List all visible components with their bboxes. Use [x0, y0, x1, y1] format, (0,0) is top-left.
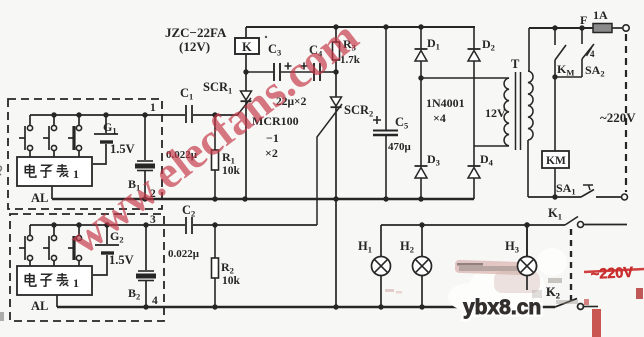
AC low rail to SA1 — [528, 196, 581, 198]
K2 contact circle — [578, 304, 584, 310]
white blob artifact 2 — [537, 248, 567, 276]
junction dot C5-node2 — [383, 196, 388, 201]
contactor coil KM box — [542, 151, 569, 168]
svg-text:K2: K2 — [546, 285, 560, 301]
svg-text:SA2: SA2 — [585, 63, 605, 79]
svg-text:×4: ×4 — [433, 111, 446, 125]
capacitor C5 plates — [373, 130, 398, 132]
capacitor C3 — [273, 63, 275, 81]
svg-text:SCR1: SCR1 — [203, 80, 232, 96]
SCR2 anode wire — [335, 72, 337, 97]
ganged link K1-K2 dashed redrawn — [570, 229, 572, 301]
junction dot B1-node2 — [142, 196, 147, 201]
svg-text:−1: −1 — [266, 131, 279, 145]
svg-text:ybx8.cn: ybx8.cn — [463, 296, 541, 319]
capacitor C4 — [313, 63, 315, 81]
svg-text:KM: KM — [546, 155, 566, 167]
svg-text:(12V): (12V) — [179, 39, 210, 54]
tie wire KM-SA2 bottoms — [555, 76, 582, 78]
sounder B1 — [142, 112, 147, 117]
AC input terminal top — [623, 25, 629, 31]
svg-text:1A: 1A — [593, 8, 608, 22]
rectifier D1 — [420, 27, 422, 49]
capacitor C1 — [185, 105, 187, 123]
junction dot R2-node4 — [212, 304, 217, 309]
white blob artifact 1 — [469, 263, 545, 311]
SCR2 — [331, 97, 342, 106]
svg-text:D3: D3 — [427, 152, 440, 168]
junction dot fuse-SA2 — [579, 25, 584, 30]
battery G2 — [104, 222, 109, 227]
junction dot commutating cap right — [333, 69, 338, 74]
primary top lead — [528, 28, 530, 71]
gray noise speck 1 — [548, 278, 562, 283]
battery G1 — [103, 112, 108, 117]
node 3 wire (clock2 alarm output bus) — [30, 224, 185, 226]
pushbutton S2b — [53, 225, 55, 235]
K2 stub wire — [584, 306, 598, 308]
junction dot H2 top — [419, 222, 424, 227]
svg-text:SCR2: SCR2 — [344, 103, 373, 119]
K1 contact circle — [578, 222, 584, 228]
resistor R2 — [212, 222, 217, 227]
svg-text:C1: C1 — [180, 86, 193, 102]
relay coil K feed wire — [245, 27, 247, 40]
svg-text:1: 1 — [73, 167, 79, 181]
svg-text:KM: KM — [557, 62, 574, 78]
AC node 2 wire to transformer secondary bottom — [474, 145, 509, 147]
red speck small — [584, 299, 589, 305]
commutating capacitor wire — [246, 71, 273, 73]
svg-text:12V: 12V — [485, 106, 506, 120]
junction dot R1-node2 — [212, 196, 217, 201]
svg-text:~220V: ~220V — [600, 110, 636, 125]
svg-text:10k: 10k — [222, 275, 241, 287]
red stamp bar — [592, 309, 601, 337]
resistor R1 — [212, 112, 217, 117]
dashed enclosure clock unit 1 — [8, 99, 162, 209]
clock box 2 (dianzibiao 2) — [17, 266, 92, 295]
svg-text:0.022μ: 0.022μ — [168, 248, 200, 260]
pushbutton S1c — [78, 115, 80, 125]
SA1 terminal circle — [622, 194, 628, 200]
primary bottom lead — [527, 140, 529, 197]
resistor R3 — [335, 27, 337, 42]
svg-text:T: T — [511, 57, 520, 71]
rectifier D4 — [473, 146, 475, 166]
svg-text:10k: 10k — [222, 165, 241, 177]
svg-text:JZC−22FA: JZC−22FA — [165, 25, 227, 40]
svg-text:AL: AL — [31, 191, 48, 205]
lamp H3 redrawn over smudge — [526, 225, 528, 256]
junction dot H3 bottom — [524, 304, 529, 309]
svg-text:R2: R2 — [221, 260, 234, 276]
svg-text:K1: K1 — [548, 206, 562, 222]
AC top rail — [529, 27, 593, 29]
junction dot R3 top — [333, 24, 338, 29]
clock box 1 (dianzibiao 1) — [17, 157, 92, 186]
lamp H1 leads — [380, 225, 382, 256]
pink smudge lower — [494, 271, 540, 293]
SCR1 — [241, 91, 252, 100]
plus mark C5 — [373, 116, 381, 124]
svg-text:~220V: ~220V — [590, 265, 633, 283]
pushbutton S2a — [29, 225, 31, 235]
filter capacitor C5 top lead — [385, 27, 387, 130]
transformer T secondary winding — [504, 78, 509, 146]
KM auxiliary contact — [554, 28, 556, 45]
node 2 rail (clock1/supply negative bus) — [52, 198, 474, 200]
lamp H3 leads — [526, 225, 528, 256]
svg-text:4: 4 — [152, 295, 158, 307]
svg-text:1.5V: 1.5V — [109, 253, 134, 267]
pushbutton S1a — [29, 115, 31, 125]
svg-text:D4: D4 — [480, 152, 494, 168]
svg-text:1: 1 — [150, 102, 156, 114]
svg-text:SA1: SA1 — [556, 181, 576, 197]
pushbutton S1b — [53, 115, 55, 125]
pink smudge band — [455, 260, 527, 276]
svg-text:H2: H2 — [400, 239, 414, 255]
svg-text:1.5V: 1.5V — [110, 142, 135, 156]
dashed enclosure clock unit 2 — [10, 214, 164, 321]
rectifier D2 — [473, 27, 475, 49]
relay K box — [235, 38, 259, 54]
junction dot B2-node4 — [143, 304, 148, 309]
lamp H2 leads — [421, 225, 423, 256]
SCR1 anode wire — [245, 54, 247, 91]
junction dot D1 top — [418, 24, 423, 29]
svg-text:C2: C2 — [182, 203, 195, 219]
svg-text:×2: ×2 — [265, 146, 278, 160]
SA2 switch — [581, 28, 583, 44]
K1 switch feed wire — [381, 224, 565, 226]
white blob artifact 3 — [448, 283, 492, 311]
lamp H1 — [372, 257, 391, 276]
capacitor C2 — [185, 217, 187, 234]
fuse F — [593, 24, 612, 33]
gray noise speck 2 — [556, 300, 578, 304]
red strike line — [584, 269, 644, 272]
K2 switch blade — [555, 299, 577, 308]
svg-text:D1: D1 — [427, 36, 440, 52]
svg-text:F: F — [580, 13, 587, 27]
rectifier D3 — [420, 78, 422, 166]
12V positive top rail — [246, 26, 475, 28]
sounder B2 — [143, 222, 148, 227]
SCR2 gate wire — [317, 104, 342, 225]
speck — [265, 36, 267, 38]
svg-text:H1: H1 — [358, 239, 372, 255]
red speck right — [636, 288, 643, 299]
svg-text:K: K — [242, 40, 252, 54]
contactor coil KM wire — [554, 77, 556, 151]
C5 bottom lead — [385, 136, 387, 199]
clock1 negative stub to node 2 — [51, 186, 53, 199]
lamp H2 — [413, 257, 432, 276]
transformer T primary winding — [528, 71, 533, 140]
svg-text:4: 4 — [590, 49, 595, 59]
svg-text:1: 1 — [73, 276, 79, 290]
junction dot H3 top — [524, 222, 529, 227]
SA1 switch blade — [581, 190, 594, 198]
SA1 handle mark — [583, 185, 593, 190]
svg-text:C5: C5 — [395, 115, 408, 131]
SCR1 gate wire — [237, 98, 251, 116]
svg-text:1N4001: 1N4001 — [426, 96, 465, 110]
SCR1 cathode wire to node2 — [245, 102, 247, 199]
clock2 negative stub to node 4 — [56, 295, 58, 307]
pushbutton S2c — [78, 225, 80, 235]
edge mark left middle — [0, 166, 1, 175]
ganged link K1-K2 dashed — [570, 229, 572, 301]
edge mark left bottom — [0, 312, 4, 321]
svg-text:AL: AL — [31, 299, 48, 313]
K2 blade redrawn — [555, 299, 577, 308]
junction dot SCR2-node2 — [333, 196, 338, 201]
svg-text:G1: G1 — [103, 120, 117, 136]
SA1 right wire — [596, 196, 621, 198]
K2 contact circle redrawn — [578, 304, 584, 310]
svg-text:D2: D2 — [482, 37, 495, 53]
K1 output wire — [584, 224, 627, 226]
svg-text:470μ: 470μ — [388, 141, 412, 153]
transformer core — [515, 72, 517, 150]
junction dot H2 bottom — [419, 304, 424, 309]
junction dot H1 bottom — [378, 304, 383, 309]
gray smudge streak — [459, 266, 517, 271]
plus mark C4 — [301, 63, 308, 70]
junction dot commutating cap left — [243, 69, 248, 74]
svg-text:B2: B2 — [128, 286, 140, 302]
svg-text:H3: H3 — [505, 239, 519, 255]
junction dot SCR2-node4 — [333, 304, 338, 309]
mains cord dashed line — [625, 34, 627, 192]
node 4 bottom rail (lamp return) — [57, 306, 555, 308]
node 1 wire (clock1 alarm output bus) — [30, 114, 185, 116]
plus mark C3 — [285, 63, 292, 70]
lamp H3 — [518, 257, 537, 276]
SCR2 cathode wire down to lamp return rail — [335, 108, 337, 307]
AC node 1 wire to transformer secondary top — [418, 75, 423, 80]
junction dot C5 top — [383, 24, 388, 29]
K1 switch blade — [565, 217, 578, 226]
smudge dots — [457, 263, 483, 266]
junction dot KM contact — [552, 25, 557, 30]
gray noise speck 3 — [532, 290, 542, 298]
